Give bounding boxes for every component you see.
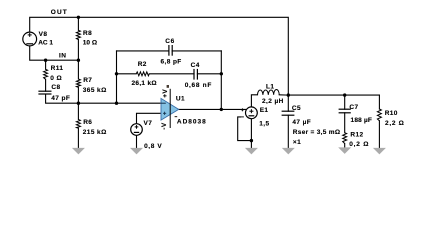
svg-text:R11: R11 — [51, 65, 64, 72]
capacitor C6 — [169, 45, 172, 56]
svg-text:215 kΩ: 215 kΩ — [83, 129, 107, 136]
source V8 — [23, 32, 37, 46]
svg-text:R12: R12 — [350, 131, 363, 138]
ground under R6 — [72, 148, 85, 155]
svg-text:R10: R10 — [385, 110, 398, 117]
wire C4 branch right — [197, 73, 221, 75]
wire R10 to ground — [378, 121, 380, 148]
op-amp pin number mark bottom — [175, 116, 178, 117]
svg-text:Rser = 3,5 mΩ: Rser = 3,5 mΩ — [293, 129, 341, 136]
wire R12 to ground — [344, 144, 346, 148]
source E1 — [241, 107, 257, 119]
ground under R12 — [338, 147, 351, 154]
svg-text:47 µF: 47 µF — [292, 119, 311, 126]
ground under E1 — [245, 148, 258, 155]
wire C6 branch left — [117, 50, 169, 52]
capacitor C7 — [339, 109, 351, 113]
wire C5 column bottom — [287, 115, 289, 148]
svg-text:1,5: 1,5 — [259, 120, 269, 127]
svg-text:V8: V8 — [39, 31, 48, 38]
svg-text:L1: L1 — [266, 83, 274, 90]
svg-text:10 Ω: 10 Ω — [83, 39, 97, 46]
wire op-amp output rail — [179, 108, 246, 110]
svg-text:C5: C5 — [292, 105, 301, 112]
resistor R11 — [44, 69, 48, 79]
source V7 — [131, 124, 143, 136]
svg-text:R2: R2 — [138, 61, 147, 68]
op-amp noninverting plus — [163, 112, 166, 115]
svg-text:R7: R7 — [83, 77, 92, 84]
svg-text:365 kΩ: 365 kΩ — [83, 87, 107, 94]
ground under V7 — [130, 148, 143, 155]
E1 control pin minus — [241, 116, 244, 118]
svg-text:0,2 Ω: 0,2 Ω — [349, 141, 369, 148]
ground under C5 — [282, 148, 295, 155]
inductor L1 — [258, 90, 280, 95]
wire feedback right vertical — [220, 51, 222, 110]
wire R11 to C8 — [45, 79, 47, 91]
svg-text:6,8 pF: 6,8 pF — [161, 58, 182, 65]
capacitor C5 — [282, 111, 295, 115]
wire R6 column top — [77, 103, 79, 119]
svg-text:R8: R8 — [83, 30, 92, 37]
wire R7 column top — [77, 60, 79, 79]
wire V8 bottom to IN rail — [30, 46, 79, 60]
svg-text:C4: C4 — [191, 62, 200, 69]
wire R11 column top — [45, 60, 47, 69]
resistor R8 — [76, 30, 80, 39]
wire V7 to ground — [136, 135, 138, 148]
op-amp pin number mark top — [167, 85, 169, 88]
svg-text:IN: IN — [59, 53, 66, 60]
svg-text:R6: R6 — [83, 119, 92, 126]
E1 control pin plus — [241, 109, 244, 111]
svg-text:×1: ×1 — [293, 139, 301, 146]
wire C7 to R12 — [344, 113, 346, 133]
wire R8 column bottom — [77, 40, 79, 61]
svg-text:C6: C6 — [165, 38, 175, 45]
svg-text:-V: -V — [161, 122, 168, 130]
wire R6 column bottom — [77, 128, 79, 148]
op-amp supply rail through symbol — [169, 89, 171, 128]
svg-text:U1: U1 — [176, 96, 185, 103]
capacitor C4 — [194, 69, 197, 80]
svg-text:V7: V7 — [144, 120, 153, 127]
wire L1 right lead — [279, 94, 288, 96]
op-amp U1 triangle — [161, 98, 179, 120]
wire C8 bottom to rail3 — [46, 94, 161, 103]
svg-text:+V: +V — [162, 89, 169, 98]
svg-text:47 pF: 47 pF — [51, 95, 70, 102]
wire R10 column top — [378, 95, 380, 109]
svg-text:E1: E1 — [260, 107, 269, 114]
capacitor C8 — [38, 91, 51, 94]
op-amp inverting input dash — [161, 102, 166, 104]
svg-text:AD8038: AD8038 — [177, 118, 207, 125]
resistor R12 — [343, 133, 347, 144]
wire E1 control loop — [238, 117, 252, 141]
resistor R2 (horizontal) — [136, 72, 149, 76]
svg-text:188 µF: 188 µF — [351, 117, 373, 124]
svg-text:AC 1: AC 1 — [38, 40, 53, 47]
svg-text:2,2 µH: 2,2 µH — [262, 98, 284, 105]
svg-text:OUT: OUT — [51, 9, 68, 16]
wire R2 to C4 — [149, 73, 194, 75]
wire feedback left vertical — [116, 51, 118, 103]
svg-text:C8: C8 — [51, 84, 60, 91]
resistor R6 — [76, 119, 80, 128]
svg-text:0,68 nF: 0,68 nF — [185, 82, 212, 89]
wire C7 column top — [344, 95, 346, 109]
svg-text:2,2 Ω: 2,2 Ω — [385, 120, 405, 127]
wire right rail — [288, 94, 379, 96]
wire R2 branch left — [117, 73, 137, 75]
wire OUT top rail — [30, 17, 289, 95]
wire R7 column bottom — [77, 87, 79, 103]
ground under R10 — [373, 148, 386, 155]
wire C6 branch right — [172, 50, 221, 52]
svg-text:26,1 kΩ: 26,1 kΩ — [132, 80, 157, 87]
wire op-amp noninverting input from V7 — [137, 113, 162, 123]
svg-text:0,8 V: 0,8 V — [144, 143, 162, 150]
wire E1 top to L1 — [251, 95, 257, 107]
wire C5 column top — [287, 95, 289, 111]
wire R8 column top — [77, 17, 79, 30]
resistor R7 — [76, 79, 80, 87]
resistor R10 — [377, 109, 381, 121]
svg-text:0 Ω: 0 Ω — [50, 75, 62, 82]
wire E1 bottom — [250, 119, 252, 148]
svg-text:C7: C7 — [349, 104, 358, 111]
